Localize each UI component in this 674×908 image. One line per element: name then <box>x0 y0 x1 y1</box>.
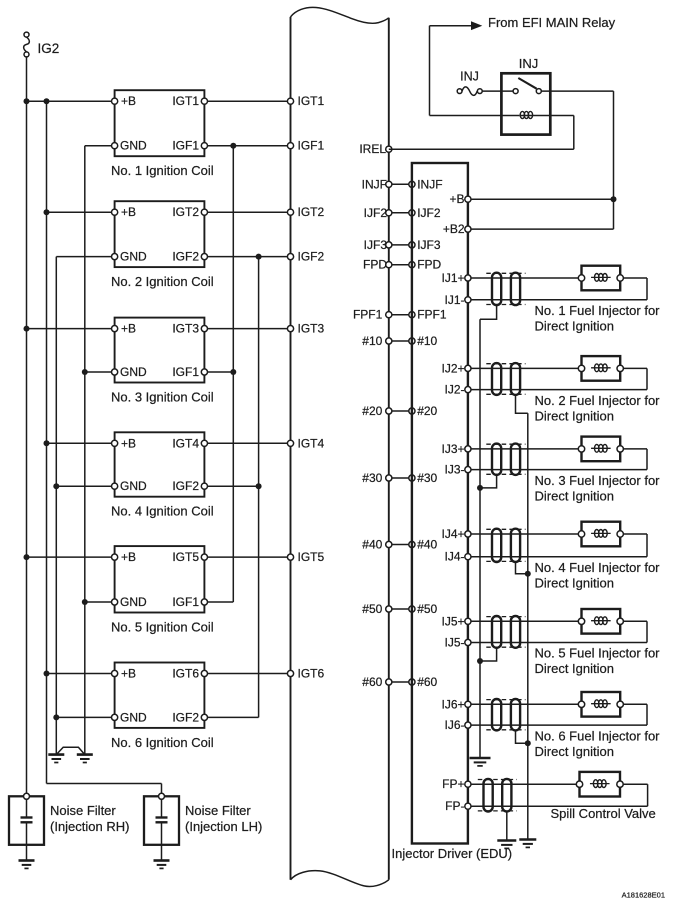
svg-text:IJ4-: IJ4- <box>444 550 464 564</box>
svg-text:Noise Filter: Noise Filter <box>185 803 251 818</box>
svg-text:GND: GND <box>120 365 147 379</box>
svg-text:From EFI MAIN Relay: From EFI MAIN Relay <box>488 15 616 30</box>
svg-text:#20: #20 <box>362 404 382 418</box>
svg-text:GND: GND <box>120 595 147 609</box>
svg-text:IGT6: IGT6 <box>298 667 325 681</box>
svg-text:(Injection LH): (Injection LH) <box>185 819 262 834</box>
svg-text:Noise Filter: Noise Filter <box>50 803 116 818</box>
svg-text:INJ: INJ <box>519 56 539 71</box>
svg-text:+B: +B <box>121 94 136 108</box>
svg-text:No. 4 Fuel Injector for: No. 4 Fuel Injector for <box>535 560 661 575</box>
svg-text:IGF2: IGF2 <box>172 250 199 264</box>
svg-text:+B: +B <box>449 192 464 206</box>
svg-text:#20: #20 <box>417 404 437 418</box>
svg-text:No. 1 Fuel Injector for: No. 1 Fuel Injector for <box>535 303 661 318</box>
svg-text:FPD: FPD <box>363 258 387 272</box>
svg-text:IJ2-: IJ2- <box>444 383 464 397</box>
svg-text:FP-: FP- <box>445 799 464 813</box>
svg-text:GND: GND <box>120 710 147 724</box>
svg-text:Direct Ignition: Direct Ignition <box>535 408 614 423</box>
svg-text:IJ1-: IJ1- <box>444 293 464 307</box>
svg-text:IJ3-: IJ3- <box>444 463 464 477</box>
svg-text:No. 3 Fuel Injector for: No. 3 Fuel Injector for <box>535 473 661 488</box>
svg-text:Direct Ignition: Direct Ignition <box>535 488 614 503</box>
svg-text:IJF2: IJF2 <box>364 206 388 220</box>
svg-text:INJF: INJF <box>417 177 442 191</box>
svg-text:Direct Ignition: Direct Ignition <box>535 575 614 590</box>
svg-text:+B: +B <box>121 667 136 681</box>
svg-text:Spill Control Valve: Spill Control Valve <box>551 806 656 821</box>
svg-text:IJ1+: IJ1+ <box>441 271 464 285</box>
svg-text:Injector Driver (EDU): Injector Driver (EDU) <box>392 846 513 861</box>
svg-text:No. 2 Fuel Injector for: No. 2 Fuel Injector for <box>535 393 661 408</box>
svg-text:IJ5-: IJ5- <box>444 636 464 650</box>
svg-text:#10: #10 <box>417 334 437 348</box>
svg-text:GND: GND <box>120 479 147 493</box>
svg-text:No. 2 Ignition Coil: No. 2 Ignition Coil <box>111 274 214 289</box>
svg-text:IGT5: IGT5 <box>172 550 199 564</box>
svg-text:IGF1: IGF1 <box>172 365 199 379</box>
svg-text:GND: GND <box>120 250 147 264</box>
svg-text:No. 6 Ignition Coil: No. 6 Ignition Coil <box>111 735 214 750</box>
svg-text:#50: #50 <box>417 602 437 616</box>
svg-text:IGT1: IGT1 <box>298 94 325 108</box>
svg-text:A181628E01: A181628E01 <box>622 890 665 899</box>
svg-text:No. 5 Fuel Injector for: No. 5 Fuel Injector for <box>535 646 661 661</box>
svg-text:#30: #30 <box>362 471 382 485</box>
svg-text:IGT2: IGT2 <box>298 205 325 219</box>
svg-text:+B: +B <box>121 436 136 450</box>
svg-text:#60: #60 <box>362 675 382 689</box>
svg-text:IREL: IREL <box>359 142 386 156</box>
svg-text:(Injection RH): (Injection RH) <box>50 819 129 834</box>
svg-text:FPF1: FPF1 <box>353 308 383 322</box>
svg-text:INJ: INJ <box>460 70 479 84</box>
svg-text:#60: #60 <box>417 675 437 689</box>
svg-text:No. 4 Ignition Coil: No. 4 Ignition Coil <box>111 504 214 519</box>
svg-text:IGF2: IGF2 <box>298 250 325 264</box>
svg-text:FPD: FPD <box>417 258 441 272</box>
svg-text:#30: #30 <box>417 471 437 485</box>
svg-text:#40: #40 <box>362 538 382 552</box>
svg-text:IGT4: IGT4 <box>298 436 325 450</box>
svg-text:IJF2: IJF2 <box>417 206 441 220</box>
svg-text:IGF1: IGF1 <box>298 139 325 153</box>
svg-text:IGF1: IGF1 <box>172 139 199 153</box>
svg-text:+B: +B <box>121 322 136 336</box>
svg-text:GND: GND <box>120 139 147 153</box>
svg-text:#40: #40 <box>417 538 437 552</box>
svg-text:IJ2+: IJ2+ <box>441 361 464 375</box>
svg-text:+B2: +B2 <box>443 222 465 236</box>
svg-text:IGF2: IGF2 <box>172 479 199 493</box>
svg-text:FP+: FP+ <box>442 777 464 791</box>
svg-text:Direct Ignition: Direct Ignition <box>535 661 614 676</box>
svg-text:No. 5 Ignition Coil: No. 5 Ignition Coil <box>111 620 214 635</box>
svg-text:IG2: IG2 <box>38 41 60 56</box>
svg-text:Direct Ignition: Direct Ignition <box>535 744 614 759</box>
svg-text:IGT1: IGT1 <box>172 94 199 108</box>
svg-text:IJF3: IJF3 <box>364 238 388 252</box>
svg-text:+B: +B <box>121 550 136 564</box>
svg-text:IGT3: IGT3 <box>298 322 325 336</box>
svg-text:IJ4+: IJ4+ <box>441 527 464 541</box>
svg-text:No. 3 Ignition Coil: No. 3 Ignition Coil <box>111 390 214 405</box>
svg-text:IJ5+: IJ5+ <box>441 614 464 628</box>
svg-text:IJ6+: IJ6+ <box>441 697 464 711</box>
svg-text:No. 6 Fuel Injector for: No. 6 Fuel Injector for <box>535 728 661 743</box>
svg-text:IGT3: IGT3 <box>172 322 199 336</box>
svg-text:+B: +B <box>121 205 136 219</box>
svg-text:IGF1: IGF1 <box>172 595 199 609</box>
svg-text:INJF: INJF <box>362 177 387 191</box>
svg-text:IGT4: IGT4 <box>172 436 199 450</box>
svg-text:#50: #50 <box>362 602 382 616</box>
svg-text:IGT6: IGT6 <box>172 667 199 681</box>
svg-text:IJ3+: IJ3+ <box>441 442 464 456</box>
svg-text:#10: #10 <box>362 334 382 348</box>
svg-text:IGF2: IGF2 <box>172 710 199 724</box>
svg-text:IGT5: IGT5 <box>298 550 325 564</box>
svg-text:IJ6-: IJ6- <box>444 718 464 732</box>
svg-text:IGT2: IGT2 <box>172 205 199 219</box>
svg-text:IJF3: IJF3 <box>417 238 441 252</box>
svg-text:Direct Ignition: Direct Ignition <box>535 319 614 334</box>
svg-text:No. 1 Ignition Coil: No. 1 Ignition Coil <box>111 163 214 178</box>
svg-text:FPF1: FPF1 <box>417 308 447 322</box>
